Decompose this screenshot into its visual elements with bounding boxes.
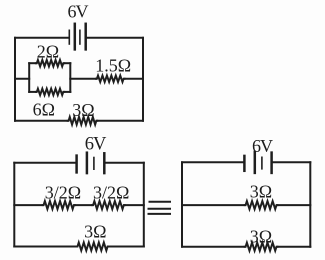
wire: circuit2 bottom-left segment <box>14 246 76 248</box>
wire: circuit2 middle left segment <box>14 204 42 206</box>
resistor R2 6ohm (parallel bottom) <box>36 89 64 95</box>
svg-text:6V: 6V <box>85 135 107 155</box>
resistor R8 3ohm (circuit3 middle) <box>245 201 278 209</box>
wire: circuit2 left edge <box>13 163 15 247</box>
wire: circuit3 middle left segment <box>182 204 245 206</box>
wire: inner box top-left <box>29 62 36 64</box>
battery B3 (6V) <box>244 152 271 173</box>
wire: circuit2 top-left segment <box>14 162 75 164</box>
wire: circuit1 middle segment <box>70 78 96 80</box>
wire: circuit1 middle right segment <box>125 78 144 80</box>
svg-text:6V: 6V <box>68 2 89 22</box>
node: inner box left edge <box>28 63 30 92</box>
wire: circuit3 top-left segment <box>182 161 243 163</box>
svg-text:6Ω: 6Ω <box>33 100 55 120</box>
equivalence symbol <box>149 202 171 214</box>
wire: circuit2 right edge <box>143 163 145 247</box>
wire: circuit1 bottom-right segment <box>97 120 143 122</box>
svg-text:3Ω: 3Ω <box>250 226 272 246</box>
wire: circuit2 middle right segment <box>125 204 144 206</box>
wire: inner box bottom-right <box>64 91 70 93</box>
node: inner box right edge <box>69 63 71 92</box>
wire: circuit1 top-left segment <box>15 37 68 39</box>
wire: circuit3 bottom-right segment <box>277 246 310 248</box>
svg-text:3/2Ω: 3/2Ω <box>93 183 129 203</box>
wire: circuit3 right edge <box>309 162 311 246</box>
svg-text:1.5Ω: 1.5Ω <box>95 56 131 76</box>
resistor R9 3ohm (circuit3 bottom) <box>245 243 278 251</box>
wire: circuit3 middle right segment <box>277 204 310 206</box>
wire: circuit3 bottom-left segment <box>182 246 245 248</box>
wire: circuit2 top-right segment <box>106 162 144 164</box>
resistor R5 3/2ohm left <box>43 201 75 209</box>
wire: circuit2 bottom-right segment <box>109 246 144 248</box>
resistor R7 3ohm (circuit2 bottom) <box>77 243 109 251</box>
svg-text:3Ω: 3Ω <box>250 181 272 201</box>
resistor R1 2ohm (parallel top) <box>36 60 64 66</box>
svg-text:3/2Ω: 3/2Ω <box>45 183 81 203</box>
battery B1 (6V) <box>69 24 85 50</box>
resistor R3 1.5ohm <box>96 76 125 82</box>
svg-text:6V: 6V <box>252 136 273 156</box>
wire: inner box bottom-left <box>29 91 36 93</box>
wire: circuit1 middle stub left <box>15 78 29 80</box>
wire: circuit3 top-right segment <box>273 161 310 163</box>
svg-text:3Ω: 3Ω <box>84 222 106 242</box>
wire: circuit1 right edge <box>142 38 144 121</box>
wire: circuit2 middle center segment <box>75 204 92 206</box>
svg-text:2Ω: 2Ω <box>37 42 59 62</box>
wire: inner box top-right <box>64 62 70 64</box>
wire: circuit3 left edge <box>181 162 183 246</box>
resistor R4 3ohm (circuit1 bottom) <box>68 117 97 125</box>
wire: circuit1 left edge <box>14 38 16 121</box>
svg-text:3Ω: 3Ω <box>72 100 94 120</box>
wire: circuit1 bottom-left segment <box>15 120 68 122</box>
wire: circuit1 top-right segment <box>87 37 143 39</box>
battery B2 (6V) <box>77 153 105 173</box>
resistor R6 3/2ohm right <box>92 201 124 209</box>
